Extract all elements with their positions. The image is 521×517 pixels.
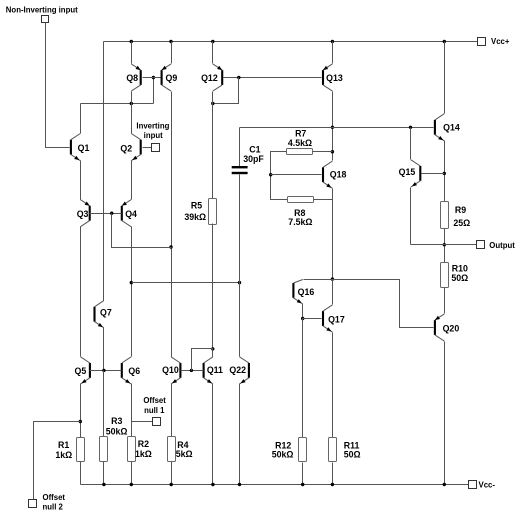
svg-text:Q15: Q15 — [399, 167, 416, 177]
resistor R4 — [168, 437, 176, 462]
node dot Q11 emitter at Vcc- rail — [211, 483, 214, 486]
wire Q12 base-collector tie — [213, 78, 239, 104]
resistor R2 — [128, 437, 136, 462]
terminal Offset null 1 — [153, 418, 161, 426]
wire Q8 base — [143, 77, 154, 79]
wire R3 from Q7 emitter junction down — [103, 371, 105, 437]
wire Q11 collector up — [212, 349, 214, 357]
node dot R4 at Vcc- rail — [170, 483, 173, 486]
resistor R9 — [441, 202, 449, 229]
svg-text:R7: R7 — [295, 129, 306, 139]
wire C1 bottom down to node — [239, 175, 241, 283]
wire R8 right lead — [314, 199, 333, 201]
wire Q2 base to inverting input — [143, 147, 152, 149]
resistor R5 — [209, 199, 217, 225]
resistor R12 — [299, 438, 307, 462]
wire node up to Q8/Q9 base junction — [153, 78, 155, 104]
transistor Q10 — [162, 357, 181, 384]
wire Q1 emitter down to Q3 emitter — [80, 161, 82, 200]
node dot Q9 emitter at Vcc+ rail — [169, 40, 172, 43]
node dot Q12 emitter at Vcc+ rail — [211, 40, 214, 43]
node dot collector node crossing — [130, 102, 133, 105]
wire Q9 base — [154, 77, 161, 79]
svg-text:50Ω: 50Ω — [451, 273, 468, 283]
svg-text:Q1: Q1 — [78, 143, 90, 153]
wire Q5 Q6 base rail — [90, 370, 122, 372]
wire Q1 collector up to node — [80, 104, 82, 134]
node dot Q16 emitter / Q17 base — [301, 317, 304, 320]
wire Q11 base-collector tie — [192, 349, 213, 371]
node dot R2 at Vcc- rail — [130, 483, 133, 486]
resistor R1 — [77, 438, 85, 462]
svg-text:null 2: null 2 — [43, 502, 64, 511]
svg-text:1kΩ: 1kΩ — [135, 449, 152, 459]
svg-text:Q14: Q14 — [443, 122, 460, 132]
wire Q20 collector to rail — [444, 342, 446, 485]
wire Q14 emitter down to R9 — [444, 141, 446, 202]
svg-text:Q8: Q8 — [126, 73, 138, 83]
wire Q4 collector down to Q6 collector — [131, 227, 133, 357]
wire R12 bottom to rail — [302, 463, 304, 485]
svg-text:Offset: Offset — [143, 396, 166, 405]
transistor Q13 — [322, 64, 343, 91]
resistor R7 — [287, 149, 313, 155]
transistor Q20 — [434, 314, 459, 341]
node dot Q11 base-collector tie — [211, 347, 214, 350]
wire Q17 emitter down to R11 — [332, 333, 334, 438]
transistor Q16 — [292, 280, 314, 305]
svg-text:Q3: Q3 — [77, 209, 89, 219]
node dot Q18 base junction — [269, 173, 272, 176]
wire Q2 emitter down to Q4 emitter — [131, 161, 133, 200]
node dot Q15 base junction — [443, 172, 446, 175]
wire Q11 emitter down to rail — [212, 384, 214, 485]
node dot Q14 collector at Vcc+ rail — [443, 40, 446, 43]
wire Q14 collector to rail — [444, 42, 446, 114]
svg-text:Q2: Q2 — [120, 143, 132, 153]
node dot Q8 Q9 base junction — [152, 76, 155, 79]
terminal Inverting input — [152, 144, 160, 152]
node dot R7 right junction — [331, 150, 334, 153]
svg-text:Q13: Q13 — [326, 73, 343, 83]
svg-text:Q22: Q22 — [229, 365, 246, 375]
wire Q15 collector up — [410, 128, 412, 160]
wire Q17 base — [303, 318, 322, 320]
svg-text:Q5: Q5 — [75, 366, 87, 376]
wire Q3/Q4 base down to Q9-Q10 line — [112, 214, 172, 248]
svg-text:Q10: Q10 — [162, 365, 179, 375]
wire Q22 emitter down to rail — [239, 384, 241, 485]
wire Q3 Q4 base — [90, 213, 122, 215]
transistor Q22 — [229, 357, 250, 384]
svg-text:7.5kΩ: 7.5kΩ — [288, 217, 312, 227]
svg-text:R5: R5 — [191, 201, 202, 211]
svg-text:25Ω: 25Ω — [453, 218, 470, 228]
transistor Q3 — [77, 200, 91, 227]
svg-text:Q20: Q20 — [443, 323, 460, 333]
svg-text:Q9: Q9 — [166, 73, 178, 83]
wire R1 bottom to rail — [80, 462, 82, 485]
svg-text:Q11: Q11 — [207, 365, 223, 375]
svg-text:null 1: null 1 — [144, 406, 165, 415]
svg-text:4.5kΩ: 4.5kΩ — [288, 138, 312, 148]
transistor Q15 — [399, 160, 422, 187]
svg-text:Q17: Q17 — [328, 314, 345, 324]
svg-text:R1: R1 — [58, 440, 69, 450]
wire Vcc+ rail — [104, 41, 478, 43]
transistor Q2 — [120, 134, 141, 161]
node dot Q3/Q4 base junction — [110, 212, 113, 215]
svg-text:Q18: Q18 — [330, 170, 347, 180]
svg-text:input: input — [144, 131, 163, 140]
svg-text:Q7: Q7 — [100, 307, 112, 317]
svg-text:Q12: Q12 — [201, 73, 218, 83]
wire R2 bottom to rail — [131, 462, 133, 485]
wire Q10 Q11 base — [181, 370, 204, 372]
svg-text:R2: R2 — [138, 439, 149, 449]
wire Q6 emitter down to R2 — [131, 384, 133, 438]
wire Q13 collector down — [332, 92, 334, 161]
wire Q12 base to Q13 base — [224, 77, 322, 79]
svg-text:Q16: Q16 — [298, 287, 315, 297]
wire Q15 emitter down to output wire — [410, 188, 412, 245]
terminal Output — [477, 241, 485, 249]
wire R9 bottom to R10 top — [444, 229, 446, 263]
terminal Offset null 2 — [29, 500, 37, 508]
wire Q12 emitter to rail — [212, 42, 214, 64]
terminal Non-Inverting input — [42, 16, 49, 23]
wire Vcc- rail — [81, 484, 469, 486]
svg-text:Output: Output — [489, 241, 515, 250]
node dot Q22 emitter at Vcc- rail — [238, 483, 241, 486]
wire first-stage output to C1/Q22 — [132, 282, 240, 284]
transistor Q8 — [126, 64, 141, 91]
transistor Q11 — [203, 357, 224, 384]
resistor R10 — [441, 263, 449, 288]
node dot Q3/Q4 base tap on Q9-Q10 line — [169, 245, 172, 248]
wire Q7 emitter down to base rail — [103, 328, 105, 371]
terminal Vcc- — [469, 481, 477, 489]
transistor Q14 — [434, 114, 460, 141]
node dot R3 at Vcc- rail — [102, 483, 105, 486]
transistor Q1 — [70, 134, 90, 161]
wire non-inverting input to Q1 base — [46, 23, 70, 148]
svg-text:5kΩ: 5kΩ — [176, 449, 193, 459]
node dot Q15 collector tap — [409, 126, 412, 129]
svg-text:30pF: 30pF — [243, 154, 264, 164]
wire Q1/Q2/Q8 collector node horizontal — [81, 103, 154, 105]
wire Q9 emitter to rail — [171, 42, 173, 64]
node dot Q7 emitter junction — [102, 369, 105, 372]
node dot Q20 collector at Vcc- rail — [443, 483, 446, 486]
wire R11 bottom to rail — [332, 463, 334, 485]
transistor Q5 — [75, 357, 91, 384]
transistor Q7 — [93, 301, 111, 328]
wire Q15 base — [422, 173, 445, 175]
wire horizontal C1/Q13/Q15 to Q14 base — [240, 127, 434, 129]
svg-text:1kΩ: 1kΩ — [55, 450, 72, 460]
wire C1 top to horizontal — [239, 128, 241, 167]
wire R5 bottom to Q11 collector — [212, 224, 214, 349]
wire node to Q20 base — [333, 280, 434, 328]
wire Q5 emitter down to R1 — [80, 384, 82, 438]
wire Q17 collector up to node — [332, 280, 334, 305]
node dot Q13 emitter at Vcc+ rail — [331, 40, 334, 43]
node dot Q8 emitter at Vcc+ rail — [130, 40, 133, 43]
resistor R11 — [329, 438, 337, 462]
node dot Q10/Q11 base junction — [190, 369, 193, 372]
capacitor C1 — [232, 166, 248, 168]
svg-text:Q4: Q4 — [125, 209, 137, 219]
transistor Q4 — [121, 200, 137, 227]
wire Q9 collector down to Q10 collector — [171, 92, 173, 357]
node dot R12 at Vcc- rail — [301, 483, 304, 486]
terminal Vcc+ — [478, 38, 486, 46]
svg-text:Inverting: Inverting — [136, 122, 169, 131]
transistor Q17 — [322, 305, 345, 332]
wire output — [411, 244, 477, 246]
node dot C1 bottom junction — [238, 281, 241, 284]
svg-text:50kΩ: 50kΩ — [106, 427, 128, 437]
svg-text:50kΩ: 50kΩ — [272, 450, 294, 460]
wire offset null 2 — [34, 422, 81, 500]
svg-text:39kΩ: 39kΩ — [184, 212, 206, 222]
wire Q16 collector to node — [304, 279, 333, 281]
wire Q16 emitter down — [302, 304, 304, 319]
svg-text:R9: R9 — [455, 205, 466, 215]
node dot second stage node — [331, 277, 334, 280]
svg-text:R3: R3 — [111, 416, 122, 426]
wire R4 bottom to rail — [171, 462, 173, 485]
wire R7 right lead — [313, 151, 333, 153]
svg-text:Vcc+: Vcc+ — [491, 37, 510, 46]
svg-text:Offset: Offset — [43, 493, 66, 502]
wire R10 bottom to Q20 emitter — [444, 288, 446, 314]
wire Q16 emitter node down to R12 — [302, 319, 304, 438]
wire C1 node down to Q22 collector — [239, 283, 241, 357]
svg-text:Non-Inverting input: Non-Inverting input — [6, 5, 78, 14]
wire Q3 collector down to Q5 collector — [80, 227, 82, 357]
wire Q8 emitter to rail — [131, 42, 133, 64]
node dot Q12 collector tie — [211, 102, 214, 105]
svg-text:Vcc-: Vcc- — [479, 481, 496, 490]
wire Q13 emitter to rail — [332, 42, 334, 64]
wire R3 bottom to rail — [103, 462, 105, 485]
wire Q18 emitter down to node — [332, 189, 334, 280]
resistor R3 — [100, 437, 108, 462]
node dot offset null 2 tap — [79, 420, 82, 423]
wire Q7 collector to Vcc+ rail — [103, 42, 105, 301]
wire Q8 collector down to Q2 collector — [131, 92, 133, 134]
transistor Q18 — [322, 161, 347, 188]
wire Q10 emitter down to R4 — [171, 384, 173, 437]
svg-text:50Ω: 50Ω — [344, 450, 361, 460]
node dot R11 at Vcc- rail — [331, 483, 334, 486]
wire Q18 base — [271, 174, 322, 176]
svg-text:Q6: Q6 — [128, 366, 140, 376]
wire Q12 collector down to R5 — [212, 92, 214, 199]
wire offset null 1 stub — [132, 421, 153, 423]
resistor R8 — [288, 197, 314, 203]
node dot first-stage output node — [130, 281, 133, 284]
node dot Q13 collector / horizontal — [331, 126, 334, 129]
wire R7 left lead and down — [271, 152, 288, 200]
node dot output node — [443, 243, 446, 246]
transistor Q12 — [201, 64, 223, 91]
transistor Q6 — [121, 357, 141, 384]
node dot Q12 base-collector tie tap — [237, 76, 240, 79]
transistor Q9 — [161, 64, 178, 91]
